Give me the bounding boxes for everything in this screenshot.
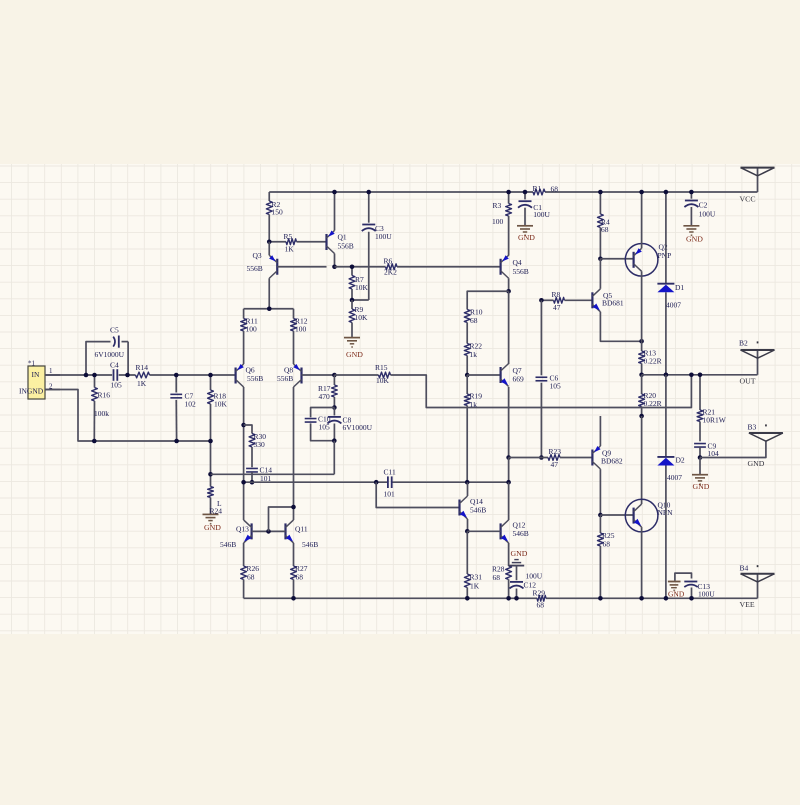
junction Q14-Q12 base (465, 529, 470, 534)
svg-text:BD681: BD681 (602, 299, 624, 308)
wire to R10 (467, 291, 508, 309)
transistor Q2 (625, 243, 671, 276)
svg-text:GND: GND (511, 549, 528, 558)
svg-text:GND: GND (204, 523, 221, 532)
transistor Q9 (592, 446, 623, 469)
junction R7 top (350, 264, 355, 269)
svg-text:68: 68 (247, 572, 255, 581)
wire R20 to Q10 (641, 416, 643, 504)
junction R16 bottom (92, 439, 97, 444)
svg-text:68: 68 (601, 225, 609, 234)
svg-text:PNP: PNP (658, 251, 672, 260)
wire Q14 emitter (467, 519, 469, 531)
wire Q12 emitter (508, 543, 510, 566)
transistor Q4 (501, 255, 529, 278)
resistor R21 (697, 375, 727, 442)
svg-text:GND: GND (518, 233, 535, 242)
junction D1 rail (664, 190, 669, 195)
wire Q2 base (600, 258, 633, 260)
resistor R8 (552, 290, 593, 312)
svg-text:556B: 556B (277, 374, 293, 383)
svg-text:GND: GND (748, 459, 765, 468)
junction w2 right end (506, 480, 511, 485)
wire Q3 collector (268, 278, 270, 309)
transistor Q12 (501, 520, 529, 543)
junction C12 rail (514, 596, 519, 601)
resistor R4 (598, 192, 611, 259)
svg-text:1k: 1k (470, 350, 478, 359)
junction C3 rail (366, 190, 371, 195)
junction R3 rail (506, 190, 511, 195)
junction Q7-R23 (506, 455, 511, 460)
svg-text:D1: D1 (675, 283, 684, 292)
wire Q8 base to R17 (302, 374, 335, 376)
svg-text:68: 68 (551, 184, 559, 193)
transistor Q1 (327, 231, 354, 254)
capacitor C9 (694, 441, 719, 458)
connector J1 (IN / INGND) (19, 360, 45, 399)
svg-text:2K2: 2K2 (384, 267, 397, 276)
svg-text:470: 470 (319, 392, 331, 401)
transistor Q6 (236, 364, 264, 387)
svg-text:OUT: OUT (740, 376, 756, 385)
svg-text:R8: R8 (552, 290, 561, 299)
junction feedback-OUT (689, 373, 694, 378)
junction Q7 base (465, 373, 470, 378)
svg-text:546B: 546B (302, 540, 318, 549)
svg-text:68: 68 (470, 316, 478, 325)
resistor R26 (241, 543, 260, 598)
junction R16 top (92, 373, 97, 378)
wire Q7 base (467, 374, 500, 376)
svg-text:R16: R16 (98, 391, 111, 400)
wire Q8 emitter down (293, 387, 295, 520)
wire Q1 emitter (334, 192, 336, 231)
svg-text:100U: 100U (699, 209, 716, 218)
terminal B4 (740, 563, 775, 609)
svg-text:10K: 10K (355, 283, 369, 292)
svg-text:R15: R15 (375, 363, 388, 372)
wire Q14 base (376, 482, 459, 507)
svg-text:R5: R5 (284, 232, 293, 241)
terminal B3 (748, 423, 783, 468)
junction Q14 base tap (374, 480, 379, 485)
resistor R10 (464, 308, 482, 344)
wire Q4 emitter (508, 278, 510, 291)
svg-text:C11: C11 (384, 467, 396, 476)
capacitor C14 (246, 465, 272, 483)
svg-text:VEE: VEE (740, 600, 755, 609)
svg-text:4007: 4007 (666, 300, 681, 309)
capacitor C8 (327, 408, 372, 441)
svg-text:0.22R: 0.22R (644, 399, 662, 408)
svg-text:1K: 1K (285, 244, 295, 253)
wire R8 (541, 299, 553, 301)
wire Q10 emitter (641, 527, 643, 598)
wire pin1 to C4 (45, 374, 112, 376)
transistor Q7 (501, 364, 524, 387)
wire B3 gnd (700, 441, 766, 457)
svg-text:Q3: Q3 (253, 251, 262, 260)
resistor R5 (269, 232, 326, 253)
svg-text:100: 100 (492, 217, 504, 226)
svg-text:GND: GND (693, 482, 710, 491)
svg-text:B2: B2 (739, 339, 748, 348)
junction D1-OUT (664, 373, 669, 378)
svg-text:B3: B3 (748, 423, 757, 432)
svg-text:Q11: Q11 (295, 525, 308, 534)
wire VCC rail (269, 191, 757, 193)
junction C7 bottom (174, 439, 179, 444)
wire Q7 emitter (508, 387, 510, 458)
wire Q2 collector (641, 192, 643, 248)
junction R19-w2 (465, 480, 470, 485)
resistor R30 (244, 425, 267, 467)
svg-text:IN: IN (32, 370, 40, 379)
svg-text:100: 100 (295, 325, 307, 334)
resistor R29 (533, 588, 547, 609)
capacitor C6 (536, 300, 562, 457)
svg-text:10R1W: 10R1W (703, 415, 727, 424)
svg-text:D2: D2 (676, 456, 685, 465)
svg-text:556B: 556B (247, 264, 263, 273)
wire Q5 emitter (600, 312, 641, 342)
junction R17 bottom (332, 405, 337, 410)
wire Q13-Q11 base tie (252, 530, 286, 532)
svg-text:10K: 10K (355, 313, 369, 322)
resistor R18 (208, 375, 228, 474)
junction C5-R14 (125, 373, 130, 378)
junction pin1-C5 (84, 373, 89, 378)
svg-text:4007: 4007 (667, 473, 682, 482)
wire w2 (244, 481, 509, 483)
diode D2 (657, 375, 685, 599)
transistor Q10 (625, 499, 673, 532)
resistor R24 (208, 474, 223, 515)
resistor R13 (639, 341, 662, 375)
junction Q11 collector (291, 505, 296, 510)
junction base tie (266, 529, 271, 534)
svg-text:6V1000U: 6V1000U (95, 350, 125, 359)
svg-text:546B: 546B (220, 540, 236, 549)
capacitor C1 (518, 192, 551, 226)
junction C1 rail (523, 190, 528, 195)
svg-text:68: 68 (603, 539, 611, 548)
svg-text:100U: 100U (526, 572, 543, 581)
svg-text:INGND: INGND (19, 386, 44, 395)
wire R4 to Q5 (599, 259, 601, 289)
capacitor C10 (305, 408, 335, 441)
svg-text:C4: C4 (110, 360, 119, 369)
svg-text:1K: 1K (470, 582, 480, 591)
junction R2-R5 (267, 239, 272, 244)
capacitor C5 (86, 325, 128, 375)
resistor R17 (318, 375, 337, 408)
svg-text:R23: R23 (549, 447, 562, 456)
junction Q9-Q10 base (598, 513, 603, 518)
svg-text:B4: B4 (740, 563, 749, 572)
resistor R23 (509, 447, 593, 469)
junction R13-OUT (639, 373, 644, 378)
svg-text:0.22R: 0.22R (644, 357, 662, 366)
transistor Q14 (460, 496, 487, 519)
resistor R19 (464, 375, 482, 482)
svg-text:68: 68 (296, 572, 304, 581)
junction C8 bottom (332, 438, 337, 443)
wire Q4-Q7 column (508, 291, 510, 364)
svg-text:150: 150 (272, 208, 284, 217)
capacitor C3 (352, 192, 392, 300)
junction C13 rail (689, 596, 694, 601)
svg-text:R14: R14 (136, 363, 149, 372)
svg-text:100U: 100U (375, 232, 392, 241)
diode D1 (657, 192, 684, 375)
svg-text:R3: R3 (493, 201, 502, 210)
junction C14-w2 (250, 480, 255, 485)
resistor R14 (136, 363, 150, 388)
junction D2 rail (664, 596, 669, 601)
junction Q10 rail (639, 596, 644, 601)
wire Q6 emitter down (243, 387, 245, 425)
capacitor C13 (675, 573, 715, 598)
junction R21 top (698, 373, 703, 378)
transistor Q8 (277, 364, 302, 387)
resistor R2 (266, 192, 283, 242)
svg-text:Q4: Q4 (513, 258, 522, 267)
resistor R7 (349, 267, 368, 300)
resistor R25 (598, 515, 615, 598)
capacitor C7 (170, 375, 196, 441)
capacitor C11 (384, 467, 396, 498)
svg-text:R29: R29 (533, 588, 546, 597)
wire Q10 base (600, 514, 633, 516)
wire Q3 collector to mirror (244, 308, 294, 310)
wire Q3 emitter (268, 242, 270, 256)
power VCC (740, 168, 775, 204)
junction R18 top (208, 373, 213, 378)
capacitor C12 (510, 566, 543, 599)
wire Q7 to w2 (508, 458, 510, 483)
svg-text:Q13: Q13 (236, 525, 249, 534)
svg-text:10K: 10K (376, 376, 390, 385)
junction C2 rail (689, 190, 694, 195)
resistor R16 (92, 375, 111, 441)
pin 2 (45, 382, 60, 390)
resistor R3 (492, 192, 512, 256)
wire feedback (391, 375, 692, 408)
ground R9 (344, 338, 363, 359)
capacitor C2 (684, 192, 715, 226)
wire w1 (mid horizontal) (211, 473, 335, 475)
svg-text:GND: GND (668, 590, 685, 599)
svg-text:68: 68 (537, 600, 545, 609)
svg-text:R6: R6 (384, 257, 393, 266)
svg-text:47: 47 (553, 303, 561, 312)
wire loop to w1 (333, 441, 335, 475)
junction R28 rail (506, 596, 511, 601)
junction C7 top (174, 373, 179, 378)
junction R7-R9-C3 (350, 298, 355, 303)
junction Q1 collector-base wire (332, 264, 337, 269)
capacitor C4 (110, 360, 122, 389)
wire Q14 collector (467, 482, 469, 496)
junction Q2 base tap (598, 256, 603, 261)
wire Q2 emitter (641, 271, 643, 341)
resistor R20 (639, 375, 662, 416)
ground C13 (668, 582, 685, 599)
resistor R9 (349, 300, 368, 337)
svg-text:669: 669 (513, 375, 525, 384)
wire R17 wire to R15 (334, 374, 378, 376)
transistor Q11 (286, 520, 319, 549)
svg-text:1K: 1K (137, 379, 147, 388)
junction Q4 emitter (506, 289, 511, 294)
svg-text:100k: 100k (94, 409, 109, 418)
svg-text:*1: *1 (28, 360, 36, 368)
svg-text:556B: 556B (513, 267, 529, 276)
resistor R28 (492, 565, 512, 599)
svg-text:6V1000U: 6V1000U (343, 423, 373, 432)
junction R8-C6 (539, 298, 544, 303)
junction R26 rail (291, 596, 296, 601)
svg-text:100U: 100U (698, 589, 715, 598)
wire OUT (642, 375, 758, 386)
junction mirror top (267, 306, 272, 311)
svg-text:330: 330 (254, 440, 266, 449)
svg-text:R1: R1 (533, 184, 542, 193)
svg-text:68: 68 (493, 573, 501, 582)
transistor Q3 (247, 251, 278, 278)
wire Q9 collector (599, 469, 601, 515)
ground C12 (inverted) (509, 549, 528, 566)
pin 1 (45, 367, 60, 375)
svg-text:GND: GND (346, 350, 363, 359)
junction R4 rail (598, 190, 603, 195)
resistor R31 (464, 531, 482, 598)
svg-text:105: 105 (111, 381, 123, 390)
ground C2 (683, 226, 703, 244)
junction R17 top (332, 373, 337, 378)
junction Q2 rail (639, 190, 644, 195)
svg-text:546B: 546B (513, 529, 529, 538)
wire R14 to Q6 base (150, 374, 236, 376)
ground C9 (692, 458, 710, 492)
resistor R6 (384, 257, 501, 277)
wire tie to Q11 collector (269, 507, 294, 531)
junction w2 left end (241, 480, 246, 485)
ground R24 (203, 514, 222, 531)
svg-text:100: 100 (246, 325, 258, 334)
wire Q3 base (277, 266, 326, 268)
junction R30 tap (241, 423, 246, 428)
junction Q5-R13 (639, 339, 644, 344)
svg-text:10K: 10K (214, 400, 228, 409)
terminal B2 (739, 339, 775, 375)
wire base to R7/R6 (335, 266, 386, 268)
junction R20-Q9 (639, 414, 644, 419)
junction R24 top (208, 472, 213, 477)
junction C6-R23 (539, 455, 544, 460)
junction R25 rail (598, 596, 603, 601)
resistor R12 (291, 309, 308, 364)
resistor R15 (375, 363, 391, 385)
svg-text:1k: 1k (470, 400, 478, 409)
junction Q1 rail (332, 190, 337, 195)
junction ground bus end (208, 439, 213, 444)
svg-text:102: 102 (185, 400, 197, 409)
wire Q9 emitter (599, 416, 601, 446)
svg-text:105: 105 (550, 382, 562, 391)
junction R31 rail (465, 596, 470, 601)
transistor Q5 (592, 289, 624, 312)
svg-text:BD682: BD682 (601, 457, 623, 466)
svg-text:100U: 100U (533, 210, 550, 219)
resistor R22 (464, 342, 482, 375)
transistor Q13 (220, 520, 252, 549)
svg-text:546B: 546B (470, 506, 486, 515)
svg-text:C2: C2 (699, 201, 708, 210)
svg-text:C5: C5 (110, 325, 119, 334)
wire to Q12 (508, 482, 510, 520)
wire VEE rail (244, 597, 758, 599)
wire Q12 base (467, 530, 500, 532)
svg-text:GND: GND (686, 234, 703, 243)
svg-text:VCC: VCC (740, 195, 756, 204)
wire pin2 down to ground bus (45, 390, 211, 442)
resistor R11 (241, 309, 258, 364)
ground C1 (517, 226, 535, 242)
resistor R1 (533, 184, 559, 195)
svg-text:47: 47 (551, 460, 559, 469)
wire Q6 to Q13 (243, 425, 245, 520)
wire Q1 collector (334, 254, 336, 267)
svg-text:101: 101 (384, 489, 396, 498)
svg-text:104: 104 (708, 449, 720, 458)
resistor R27 (291, 543, 308, 598)
svg-text:1: 1 (49, 367, 53, 375)
svg-text:556B: 556B (338, 241, 354, 250)
svg-text:556B: 556B (247, 374, 263, 383)
svg-text:R31: R31 (470, 572, 483, 581)
junction C9-B3 (698, 455, 703, 460)
wire C4 to R14 (119, 374, 136, 376)
